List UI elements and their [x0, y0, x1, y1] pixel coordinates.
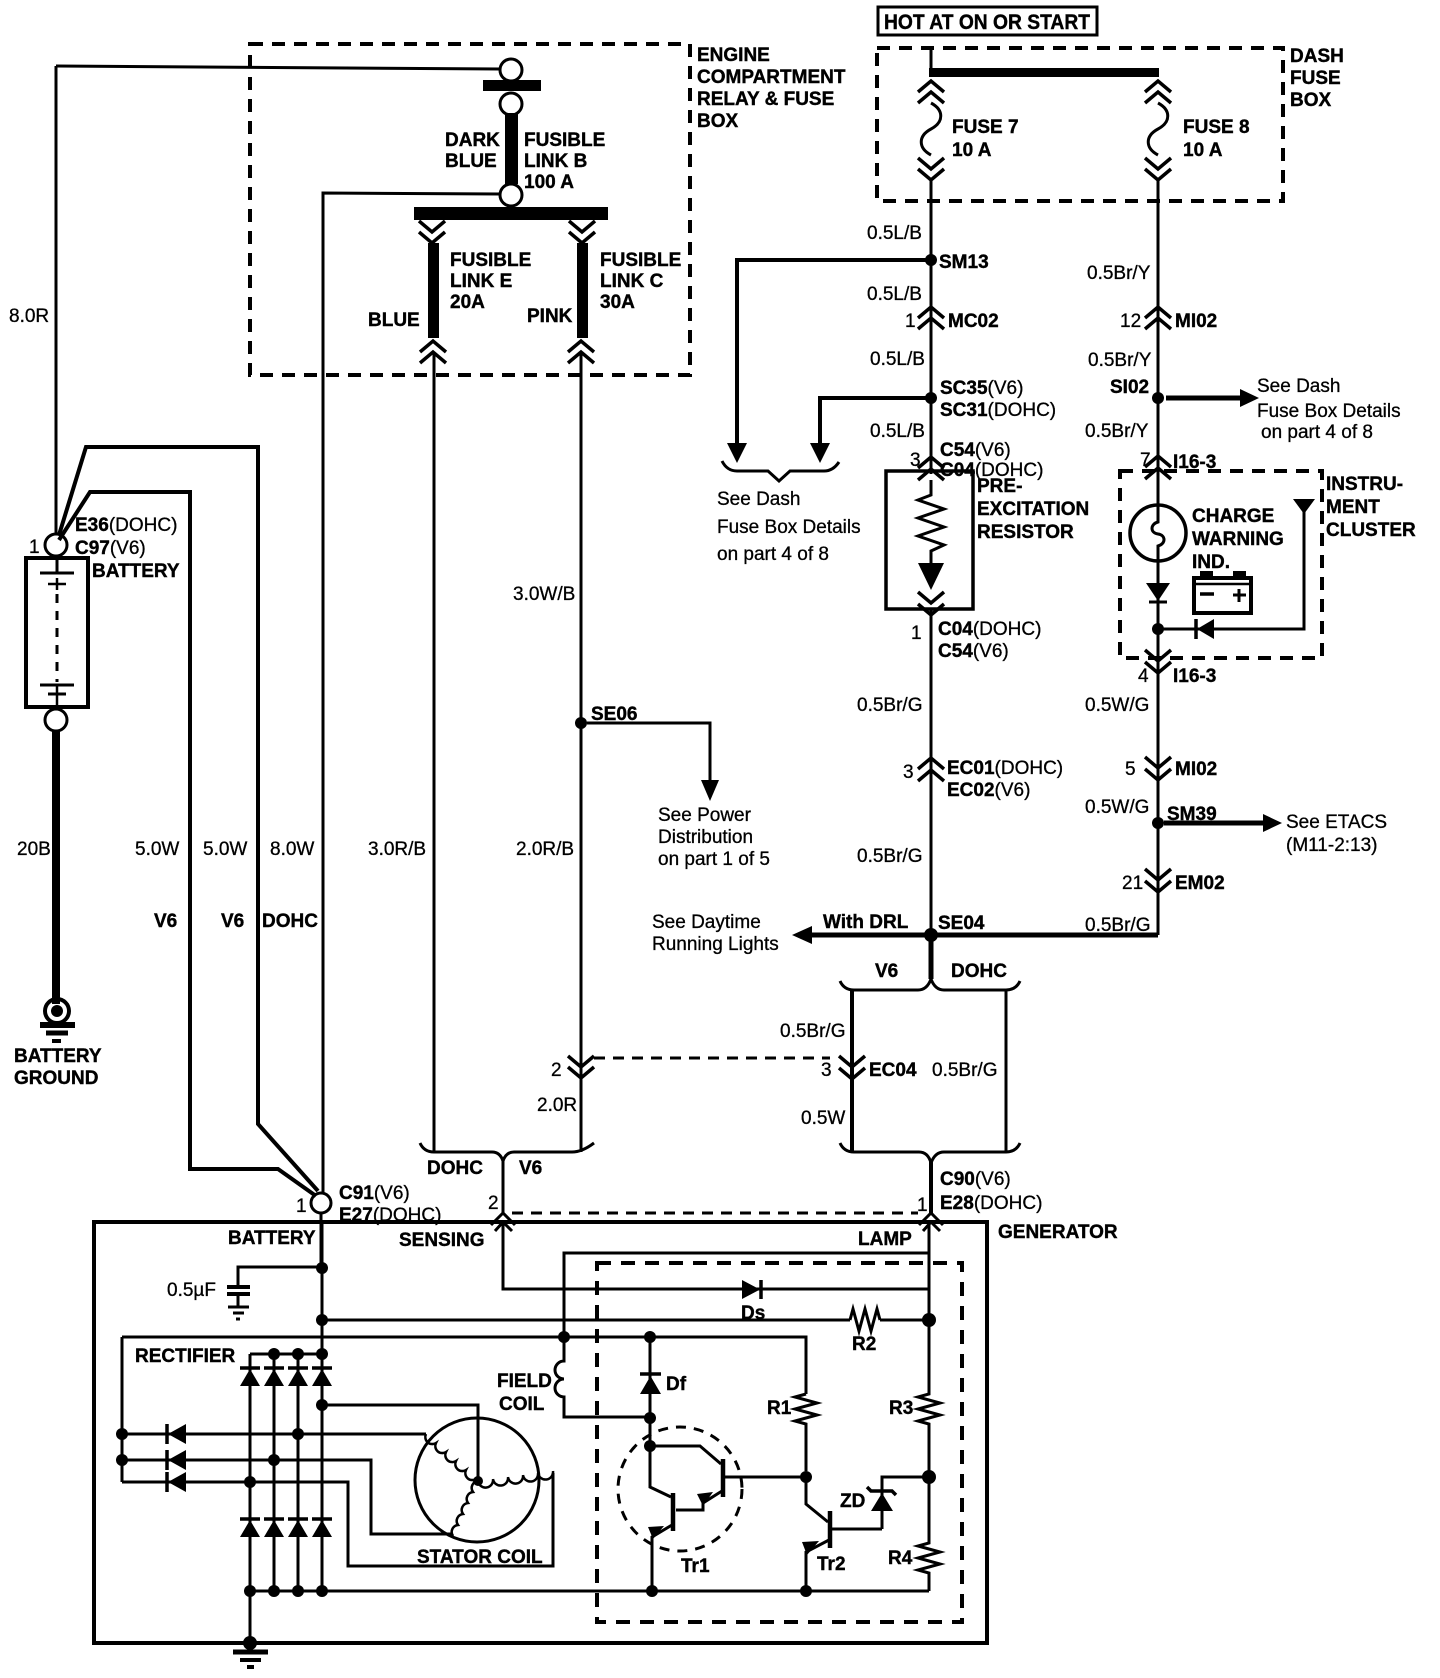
- diode top row 1: [240, 1368, 260, 1386]
- ground drop: [249, 1591, 252, 1643]
- svg-text:EC01(DOHC): EC01(DOHC): [947, 758, 1063, 779]
- svg-text:1: 1: [296, 1196, 307, 1217]
- svg-text:on part 1 of 5: on part 1 of 5: [658, 849, 770, 870]
- svg-text:MENT: MENT: [1326, 497, 1380, 518]
- resistor element (zigzag): [918, 480, 944, 563]
- svg-text:2.0R/B: 2.0R/B: [516, 839, 574, 860]
- svg-text:See Daytime: See Daytime: [652, 912, 761, 933]
- svg-text:C54(V6): C54(V6): [938, 641, 1009, 662]
- DOHC/V6 merge bracket: [420, 1143, 594, 1161]
- connector I16-3 (pin 4): [1145, 650, 1171, 673]
- svg-text:Running Lights: Running Lights: [652, 934, 779, 955]
- svg-text:I16-3: I16-3: [1173, 666, 1216, 687]
- wire from junction to DOHC drop: [323, 193, 500, 1193]
- battery internal stub top: [56, 556, 59, 573]
- connector chevrons link C bottom: [568, 341, 594, 363]
- node Df top: [644, 1331, 656, 1343]
- connector chevrons below bus (link C): [569, 221, 595, 243]
- wire resistor to EC01: [930, 609, 933, 935]
- wire 8.0R vertical: [55, 66, 58, 534]
- svg-text:BATTERY: BATTERY: [228, 1228, 316, 1249]
- svg-text:FUSIBLE: FUSIBLE: [450, 250, 531, 271]
- generator ground symbol: [233, 1650, 268, 1655]
- svg-text:PINK: PINK: [527, 306, 573, 327]
- resistor R3: [918, 1320, 940, 1477]
- svg-text:LAMP: LAMP: [858, 1229, 912, 1250]
- engine compartment relay & fuse box (dashed): [250, 44, 690, 375]
- svg-text:0.5Br/G: 0.5Br/G: [932, 1060, 997, 1081]
- V6/DOHC split bracket: [840, 979, 1020, 990]
- svg-text:12: 12: [1120, 311, 1141, 332]
- node field coil top: [558, 1331, 570, 1343]
- fusible link E (thick): [428, 243, 439, 338]
- instrument cluster box (dashed): [1120, 471, 1322, 658]
- wire 3.0W/B / 2.0R from link C down to V6 merge: [580, 352, 583, 1152]
- fusible link C (thick): [577, 243, 588, 338]
- svg-text:3.0R/B: 3.0R/B: [368, 839, 426, 860]
- svg-text:4: 4: [1138, 666, 1149, 687]
- fuse 7 connector chevrons top: [918, 81, 944, 103]
- svg-text:R1: R1: [767, 1398, 792, 1419]
- svg-text:FUSE 8: FUSE 8: [1183, 117, 1250, 138]
- svg-text:FUSIBLE: FUSIBLE: [600, 250, 681, 271]
- junction terminal circle bottom: [500, 184, 522, 206]
- svg-text:BATTERY: BATTERY: [92, 561, 180, 582]
- battery terminal circle (generator): [311, 1193, 331, 1213]
- wire 20B (thick): [52, 731, 60, 1004]
- svg-text:0.5Br/Y: 0.5Br/Y: [1085, 421, 1149, 442]
- svg-text:IND.: IND.: [1192, 552, 1230, 573]
- svg-text:See Power: See Power: [658, 805, 752, 826]
- svg-text:See ETACS: See ETACS: [1286, 812, 1387, 833]
- svg-text:C04(DOHC): C04(DOHC): [938, 619, 1041, 640]
- svg-text:Df: Df: [666, 1374, 687, 1395]
- fuse 8 connector chevrons bottom: [1145, 158, 1171, 180]
- wire SE04 to EM02 branch: [931, 933, 1158, 938]
- svg-text:2: 2: [488, 1193, 499, 1214]
- svg-text:3: 3: [903, 762, 914, 783]
- svg-text:BLUE: BLUE: [368, 310, 420, 331]
- svg-text:1: 1: [29, 537, 40, 558]
- battery telltale icon: [1194, 571, 1251, 613]
- svg-text:BATTERY: BATTERY: [14, 1046, 102, 1067]
- svg-text:V6: V6: [154, 911, 177, 932]
- svg-text:0.5Br/G: 0.5Br/G: [857, 695, 922, 716]
- connector MC02: [918, 307, 944, 329]
- svg-text:DOHC: DOHC: [427, 1158, 483, 1179]
- resistor R2: [850, 1309, 880, 1331]
- chevron SENSING terminal: [491, 1213, 515, 1231]
- svg-text:Ds: Ds: [741, 1303, 765, 1324]
- diode bottom row 3: [288, 1519, 308, 1537]
- diode top row 2: [264, 1368, 284, 1386]
- connector I16-3 (pin 7): [1145, 456, 1171, 479]
- svg-text:5.0W: 5.0W: [203, 839, 247, 860]
- phase wire 2: [122, 1460, 452, 1534]
- zener ZD: [840, 1477, 927, 1529]
- connector 3 C54/C04 chevrons: [918, 457, 944, 480]
- diode bottom row 4: [312, 1519, 332, 1537]
- diode Df: [649, 1337, 652, 1446]
- svg-text:3.0W/B: 3.0W/B: [513, 584, 575, 605]
- svg-text:RELAY & FUSE: RELAY & FUSE: [697, 89, 834, 110]
- svg-text:0.5Br/Y: 0.5Br/Y: [1087, 263, 1151, 284]
- svg-text:WARNING: WARNING: [1192, 529, 1284, 550]
- svg-text:FUSE: FUSE: [1290, 68, 1341, 89]
- diode Ds: [742, 1280, 760, 1299]
- svg-text:EM02: EM02: [1175, 873, 1225, 894]
- connector chevrons below bus (link E): [419, 221, 445, 243]
- svg-text:R3: R3: [889, 1398, 913, 1419]
- svg-text:COIL: COIL: [499, 1394, 545, 1415]
- svg-text:DOHC: DOHC: [951, 961, 1007, 982]
- fusible link B (thick): [505, 113, 518, 184]
- svg-text:SI02: SI02: [1110, 377, 1149, 398]
- svg-text:FIELD: FIELD: [497, 1371, 552, 1392]
- wire to R2: [322, 1319, 850, 1322]
- svg-text:2: 2: [551, 1060, 562, 1081]
- arrow SI02 to dash fuse box details: [1166, 396, 1240, 401]
- connector MI02 (pin 5): [1145, 757, 1171, 780]
- svg-text:INSTRU-: INSTRU-: [1326, 474, 1403, 495]
- svg-text:1: 1: [905, 311, 916, 332]
- wire SM13 branch to dash fuse box details: [737, 260, 931, 443]
- junction block bar: [483, 80, 541, 91]
- battery box: [26, 558, 88, 707]
- splice SE06: [575, 717, 587, 729]
- svg-text:EC02(V6): EC02(V6): [947, 780, 1030, 801]
- nodes on riser bus: [268, 1348, 280, 1360]
- node ZD/R3/R4: [922, 1470, 936, 1484]
- svg-text:20B: 20B: [17, 839, 51, 860]
- battery internal top tick: [48, 583, 66, 586]
- resistor R1: [795, 1394, 817, 1471]
- svg-text:10 A: 10 A: [952, 140, 992, 161]
- svg-text:ZD: ZD: [840, 1491, 865, 1512]
- svg-text:BLUE: BLUE: [445, 151, 497, 172]
- node R2/lamp line: [922, 1313, 936, 1327]
- wire merge to LAMP: [929, 1162, 933, 1215]
- charge warning bulb: [1130, 505, 1186, 561]
- svg-text:2.0R: 2.0R: [537, 1095, 577, 1116]
- svg-text:C90(V6): C90(V6): [940, 1169, 1011, 1190]
- coil arc lower-left: [452, 1481, 478, 1536]
- node Tr1 collector: [644, 1440, 656, 1452]
- arrow SM39 to ETACS: [1164, 821, 1263, 826]
- dashed link sensing-lamp: [512, 1212, 918, 1215]
- battery bottom terminal circle: [45, 709, 67, 731]
- svg-text:21: 21: [1122, 873, 1143, 894]
- phase wire 1: [122, 1433, 426, 1436]
- chevron LAMP terminal: [919, 1213, 943, 1231]
- battery internal top plate: [40, 572, 74, 575]
- svg-text:0.5µF: 0.5µF: [167, 1280, 216, 1301]
- battery internal bottom tick: [48, 693, 66, 696]
- svg-text:MI02: MI02: [1175, 311, 1217, 332]
- svg-text:(M11-2:13): (M11-2:13): [1286, 835, 1378, 856]
- feed stub: [930, 48, 933, 68]
- svg-text:GENERATOR: GENERATOR: [998, 1222, 1118, 1243]
- svg-text:V6: V6: [221, 911, 244, 932]
- brace under arrows: [722, 461, 839, 481]
- dash fuse box (dashed): [877, 48, 1283, 201]
- wire diag to 5.0W V6 riser 1: [59, 492, 316, 1196]
- wire merge to SENSING: [502, 1160, 505, 1213]
- rectifier bus wire (top): [122, 1337, 806, 1394]
- wire SE04 down to split: [929, 935, 934, 979]
- svg-text:With DRL: With DRL: [823, 912, 909, 933]
- svg-text:RESISTOR: RESISTOR: [977, 522, 1074, 543]
- neutral wire: [322, 1405, 478, 1481]
- svg-text:LINK B: LINK B: [524, 151, 587, 172]
- diode left 2: [167, 1450, 186, 1470]
- pre-excitation resistor box: [886, 471, 973, 609]
- svg-text:DASH: DASH: [1290, 46, 1344, 67]
- engine box label: [697, 45, 846, 132]
- svg-text:C54(V6): C54(V6): [940, 440, 1011, 461]
- node field/Df junction: [644, 1412, 656, 1424]
- svg-text:20A: 20A: [450, 292, 485, 313]
- diode left 1: [167, 1424, 186, 1444]
- connector EC04: [839, 1056, 865, 1079]
- splice SM39: [1152, 817, 1164, 829]
- svg-text:5: 5: [1125, 759, 1136, 780]
- svg-text:1: 1: [911, 623, 922, 644]
- svg-text:SC35(V6): SC35(V6): [940, 378, 1023, 399]
- svg-text:0.5L/B: 0.5L/B: [867, 223, 922, 244]
- generator box: [94, 1222, 987, 1643]
- svg-text:SM13: SM13: [939, 252, 989, 273]
- wire diag to 5.0W V6 riser 2: [59, 447, 318, 1191]
- svg-text:CLUSTER: CLUSTER: [1326, 520, 1416, 541]
- svg-text:0.5L/B: 0.5L/B: [870, 421, 925, 442]
- connector chevrons at box bottom: [918, 592, 944, 615]
- connector 2 on V6 wire: [568, 1056, 594, 1078]
- wire DOHC branch: [1005, 990, 1008, 1152]
- fuse 7 element: [921, 103, 941, 155]
- svg-text:BOX: BOX: [697, 111, 739, 132]
- capacitor 0.5uF wire: [238, 1267, 322, 1286]
- svg-text:FUSIBLE: FUSIBLE: [524, 130, 605, 151]
- svg-text:E36(DOHC): E36(DOHC): [75, 515, 177, 536]
- battery internal dashed cell: [56, 594, 59, 682]
- fuse bus bar: [929, 68, 1159, 77]
- phase riser 3: [297, 1354, 300, 1591]
- diode bottom row 2: [264, 1519, 284, 1537]
- arrow down (right): [810, 443, 830, 463]
- svg-text:GROUND: GROUND: [14, 1068, 98, 1089]
- capacitor plates: [227, 1285, 250, 1289]
- connector MI02: [1145, 307, 1171, 329]
- svg-text:SC31(DOHC): SC31(DOHC): [940, 400, 1056, 421]
- emitter bus: [250, 1590, 929, 1593]
- field coil: [555, 1337, 650, 1417]
- svg-text:ENGINE: ENGINE: [697, 45, 770, 66]
- voltage regulator box (dashed): [597, 1263, 962, 1622]
- node battery/R2: [316, 1314, 328, 1326]
- svg-text:7: 7: [1140, 450, 1151, 471]
- splice SI02: [1152, 392, 1164, 404]
- wire SE06 to power distribution arrow: [587, 723, 710, 780]
- svg-text:0.5Br/Y: 0.5Br/Y: [1088, 350, 1152, 371]
- HOT AT ON OR START box: [878, 7, 1097, 35]
- battery top terminal circle: [45, 534, 67, 556]
- node R1/Tr2: [800, 1471, 812, 1483]
- svg-text:V6: V6: [875, 961, 898, 982]
- svg-text:on part 4 of 8: on part 4 of 8: [1261, 422, 1373, 443]
- svg-text:R2: R2: [852, 1334, 876, 1355]
- wire to cluster feed + diode: [1158, 512, 1304, 629]
- svg-text:3: 3: [910, 450, 921, 471]
- svg-text:RECTIFIER: RECTIFIER: [135, 1346, 236, 1367]
- transistor Tr1 (darlington): [618, 1427, 806, 1591]
- svg-text:MC02: MC02: [948, 311, 999, 332]
- svg-text:10 A: 10 A: [1183, 140, 1223, 161]
- svg-text:See Dash: See Dash: [1257, 376, 1340, 397]
- svg-text:C91(V6): C91(V6): [339, 1183, 410, 1204]
- arrow head at top: [1293, 499, 1315, 514]
- svg-text:MI02: MI02: [1175, 759, 1217, 780]
- svg-text:SE04: SE04: [938, 913, 985, 934]
- svg-text:EXCITATION: EXCITATION: [977, 499, 1089, 520]
- diode top row 3: [288, 1368, 308, 1386]
- svg-text:0.5Br/G: 0.5Br/G: [857, 846, 922, 867]
- svg-text:1: 1: [917, 1195, 928, 1216]
- svg-text:100 A: 100 A: [524, 172, 574, 193]
- svg-text:FUSE 7: FUSE 7: [952, 117, 1019, 138]
- connector chevrons link E bottom: [420, 341, 446, 363]
- phase riser 2: [273, 1354, 276, 1591]
- svg-text:0.5W: 0.5W: [801, 1108, 845, 1129]
- splice SE04: [924, 928, 938, 942]
- battery internal bottom plate: [40, 684, 74, 687]
- svg-text:Fuse Box Details: Fuse Box Details: [717, 517, 861, 538]
- resistor R4: [918, 1477, 940, 1591]
- coil arc upper-left: [425, 1434, 476, 1480]
- phase wire 3: [122, 1473, 553, 1566]
- wire: battery to junction block top: [56, 66, 500, 69]
- diode (pointing left): [1197, 619, 1214, 639]
- svg-text:E28(DOHC): E28(DOHC): [940, 1193, 1042, 1214]
- battery ground symbol: [40, 999, 75, 1041]
- splice SM13: [925, 254, 937, 266]
- svg-text:DARK: DARK: [445, 130, 500, 151]
- node battery/cap: [316, 1262, 328, 1274]
- svg-text:LINK C: LINK C: [600, 271, 664, 292]
- capacitor ground: [228, 1306, 249, 1309]
- fuse 7 connector chevrons bottom: [918, 158, 944, 180]
- sensing wire to Ds: [503, 1222, 929, 1289]
- svg-text:8.0R: 8.0R: [9, 306, 49, 327]
- svg-text:8.0W: 8.0W: [270, 839, 314, 860]
- LAMP wire down: [928, 1224, 931, 1320]
- C90 merge bracket: [840, 1143, 1020, 1163]
- connector EM02: [1145, 869, 1171, 892]
- arrow inside resistor box: [918, 563, 944, 590]
- lamp to field coil wire: [564, 1253, 929, 1337]
- svg-text:LINK E: LINK E: [450, 271, 512, 292]
- coil arc right: [478, 1471, 553, 1488]
- arrow SE04 to daytime running lights: [812, 933, 931, 938]
- svg-text:STATOR COIL: STATOR COIL: [417, 1547, 543, 1568]
- svg-text:HOT AT ON OR START: HOT AT ON OR START: [884, 11, 1090, 34]
- transistor Tr2: [802, 1477, 882, 1591]
- arrow down (left): [727, 443, 747, 463]
- svg-text:Distribution: Distribution: [658, 827, 753, 848]
- svg-text:Fuse Box Details: Fuse Box Details: [1257, 401, 1401, 422]
- wire SC35 branch to dash fuse box details: [820, 398, 931, 443]
- stator coil: [316, 1399, 553, 1568]
- svg-text:V6: V6: [519, 1158, 542, 1179]
- dashed jumper to EC04: [594, 1057, 830, 1060]
- wire bulb to splice: [1157, 561, 1160, 935]
- svg-text:C97(V6): C97(V6): [75, 538, 146, 559]
- connector EC01/EC02: [918, 758, 944, 781]
- phase riser 1: [250, 1353, 322, 1356]
- svg-text:0.5Br/G: 0.5Br/G: [780, 1021, 845, 1042]
- fuse 8 element: [1148, 103, 1168, 155]
- svg-text:CHARGE: CHARGE: [1192, 506, 1274, 527]
- diode top row 4: [312, 1368, 332, 1386]
- svg-text:on part 4 of 8: on part 4 of 8: [717, 544, 829, 565]
- wire fuse8 down to cluster: [1157, 180, 1160, 506]
- svg-text:0.5W/G: 0.5W/G: [1085, 797, 1149, 818]
- arrow down (see power distribution): [701, 780, 719, 801]
- svg-text:0.5L/B: 0.5L/B: [867, 284, 922, 305]
- fuse 8 connector chevrons top: [1145, 81, 1171, 103]
- diode left 3: [167, 1472, 186, 1492]
- fuse bus bar: [414, 207, 608, 220]
- battery feed wire inside: [321, 1222, 324, 1591]
- svg-text:5.0W: 5.0W: [135, 839, 179, 860]
- splice SC35/SC31: [925, 392, 937, 404]
- svg-text:3: 3: [821, 1060, 832, 1081]
- svg-text:Tr2: Tr2: [817, 1554, 846, 1575]
- wire 3.0R/B from link E down to DOHC merge: [433, 352, 436, 1152]
- svg-text:See Dash: See Dash: [717, 489, 800, 510]
- svg-text:0.5L/B: 0.5L/B: [870, 349, 925, 370]
- diode bottom row 1: [240, 1519, 260, 1537]
- svg-text:EC04: EC04: [869, 1060, 917, 1081]
- svg-text:30A: 30A: [600, 292, 635, 313]
- svg-text:Tr1: Tr1: [681, 1556, 710, 1577]
- rectifier left edge: [121, 1337, 124, 1482]
- svg-text:COMPARTMENT: COMPARTMENT: [697, 67, 846, 88]
- wire V6 branch: [850, 990, 854, 1152]
- junction terminal circle mid: [500, 93, 522, 115]
- svg-text:0.5W/G: 0.5W/G: [1085, 695, 1149, 716]
- svg-text:BOX: BOX: [1290, 90, 1332, 111]
- svg-text:SENSING: SENSING: [399, 1230, 485, 1251]
- junction terminal circle top: [500, 59, 522, 81]
- wire fuse7 down to pre-excitation resistor: [930, 180, 933, 474]
- svg-text:PRE-: PRE-: [977, 476, 1022, 497]
- splice in cluster: [1152, 623, 1164, 635]
- diode below bulb: [1146, 583, 1170, 601]
- svg-text:DOHC: DOHC: [262, 911, 318, 932]
- svg-text:R4: R4: [888, 1548, 913, 1569]
